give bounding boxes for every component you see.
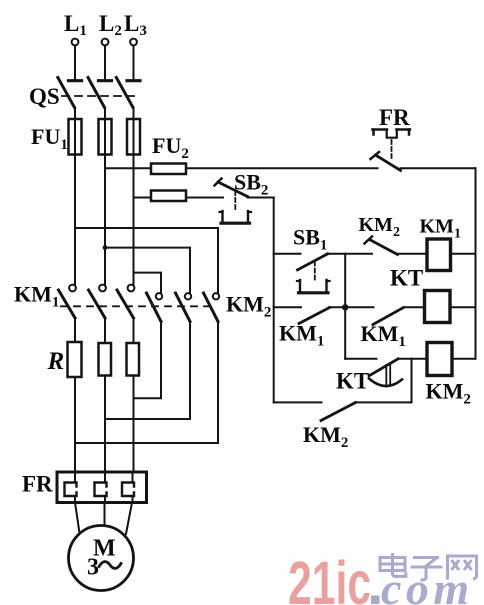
svg-text:KT: KT — [336, 369, 369, 394]
wire KM1 contact3 to R — [133, 318, 135, 343]
junction dot phase2 — [103, 245, 108, 250]
wire phase2 tap to FU2a — [105, 167, 151, 169]
svg-text:SB1: SB1 — [293, 225, 327, 254]
svg-text:L2: L2 — [99, 11, 122, 39]
wire motor lead 2 — [104, 503, 106, 526]
char wang — [448, 556, 477, 580]
wire KM2NC to KM1 coil — [398, 253, 428, 255]
wire L1 down to QS — [74, 46, 76, 80]
svg-text:FU1: FU1 — [31, 124, 68, 153]
node L1 terminal — [64, 11, 87, 45]
watermark dianziwang — [380, 553, 477, 580]
svg-text:KM1: KM1 — [361, 321, 406, 350]
wire phase1 tap line to KM2 contact 6 — [75, 228, 218, 293]
right rail — [475, 168, 477, 358]
switch QS pole 2 — [88, 78, 112, 108]
contactor KM2 main contact 5 — [176, 293, 192, 322]
contact KM2 self hold bottom — [303, 403, 356, 452]
svg-text:FR: FR — [379, 105, 410, 130]
fuse FU1 b — [99, 119, 112, 155]
wire FU2b to SB2 — [186, 197, 223, 199]
svg-text:KM1: KM1 — [14, 282, 59, 311]
svg-text:FU2: FU2 — [152, 133, 189, 162]
wire top rail SB1 to KM2 NC — [327, 253, 373, 255]
char zi — [411, 558, 443, 581]
wire FU2a to FR contact — [186, 167, 378, 169]
coil KT — [390, 266, 450, 323]
wire KT coil to right rail — [450, 306, 476, 308]
contactor KM1 main contact 3 — [117, 285, 134, 318]
contact KT delayed NO — [336, 359, 402, 394]
svg-text:KT: KT — [390, 266, 423, 291]
svg-text:21ic: 21ic — [288, 550, 371, 605]
wire bottom branch left — [274, 401, 322, 403]
contactor KM2 main contact 6 — [204, 293, 220, 322]
vertical KM2 branch right — [411, 359, 413, 403]
contactor KM1 main contact 2 — [89, 285, 106, 318]
contact KM1 series KT — [361, 308, 406, 351]
wire KM1 contact2 to R — [104, 318, 106, 343]
svg-text:SB2: SB2 — [234, 170, 268, 199]
wire KM2 contact6 bottom to phase1 — [75, 322, 218, 444]
junction dot row2 — [342, 304, 348, 310]
svg-text:KM2: KM2 — [426, 379, 471, 408]
svg-text:QS: QS — [29, 84, 60, 109]
switch QS pole 1 — [58, 78, 82, 108]
coil KM2 — [426, 343, 471, 408]
svg-text:L1: L1 — [64, 11, 87, 39]
fuse FU2 a — [151, 164, 186, 175]
left rail — [273, 198, 275, 403]
wire SB2 to left rail — [248, 197, 274, 199]
watermark dot — [371, 596, 380, 605]
thermal relay FR heater box — [57, 472, 147, 503]
svg-text:L3: L3 — [124, 11, 147, 39]
wire phase2 R to FR — [104, 376, 106, 473]
wire phase3 tap line to KM2 contact 4 — [134, 273, 162, 293]
wire to KT coil — [404, 306, 425, 308]
wire row3 left — [345, 358, 376, 360]
resistor R phase1 — [68, 342, 82, 377]
fuse FU1 a — [69, 119, 82, 155]
FR heater element 3 — [122, 472, 134, 503]
contactor KM2 main contact 4 — [147, 293, 163, 322]
fuse FU2 b — [151, 191, 186, 202]
contactor KM1 main contact 1 — [59, 285, 76, 318]
svg-text:3: 3 — [87, 555, 99, 581]
wire phase2 tap line to KM2 contact 5 — [105, 248, 190, 293]
contact KM1 self hold — [274, 307, 330, 349]
fuse FU1 c — [127, 119, 140, 155]
wire row2 mid — [330, 306, 374, 308]
char dian — [380, 553, 406, 576]
coil KM1 — [420, 216, 461, 271]
wire phase3 tap to FU2b — [134, 197, 152, 199]
svg-text:KM2: KM2 — [303, 422, 348, 451]
branch vertical self hold — [344, 254, 346, 359]
pushbutton SB2 NC — [215, 170, 269, 224]
wire phase2 QS to KM1 contact — [104, 108, 106, 285]
svg-text:R: R — [47, 348, 65, 375]
wire phase1 R to FR — [74, 377, 76, 472]
watermark 21ic — [288, 550, 371, 605]
svg-text:KM2: KM2 — [226, 292, 271, 321]
node L2 terminal — [99, 11, 122, 45]
motor M — [69, 526, 134, 591]
node L3 terminal — [124, 11, 147, 45]
wire KM2 contact5 bottom to phase2 — [105, 322, 190, 420]
FR heater element 2 — [95, 472, 107, 503]
switch QS pole 3 — [116, 78, 140, 108]
relay FR NC contact top right — [371, 105, 411, 171]
wire L2 down to QS — [104, 46, 106, 80]
wire FR to right rail — [401, 167, 476, 169]
svg-text:FR: FR — [22, 472, 53, 497]
wire KM2 coil to right rail — [452, 358, 476, 360]
wire KT contact to KM2 coil — [398, 358, 427, 360]
wire phase3 R to FR — [133, 376, 135, 473]
wire motor lead 3 — [126, 503, 132, 535]
resistor R phase3 — [127, 343, 140, 376]
wire KM2 contact4 bottom to phase3 — [134, 322, 162, 399]
FR heater element 1 — [65, 472, 77, 503]
wire KM1 coil to right rail — [451, 253, 476, 255]
svg-text:com: com — [381, 563, 474, 605]
contactor linkage dashed — [61, 305, 214, 307]
wire KM1 contact1 to R — [74, 318, 76, 342]
svg-text:KM1: KM1 — [279, 321, 324, 350]
wire phase3 QS to KM1 contact — [133, 108, 135, 285]
wire phase1 QS to KM1 contact — [74, 108, 76, 285]
wire motor lead 1 — [75, 503, 80, 534]
wire bottom branch right — [355, 401, 412, 403]
wire L3 down to QS — [133, 46, 135, 80]
resistor R phase2 — [99, 343, 112, 376]
svg-text:KM2: KM2 — [359, 214, 400, 240]
contact KM2 NC top — [359, 214, 400, 255]
QS linkage dashed — [62, 95, 140, 97]
pushbutton SB1 NO — [274, 225, 330, 293]
